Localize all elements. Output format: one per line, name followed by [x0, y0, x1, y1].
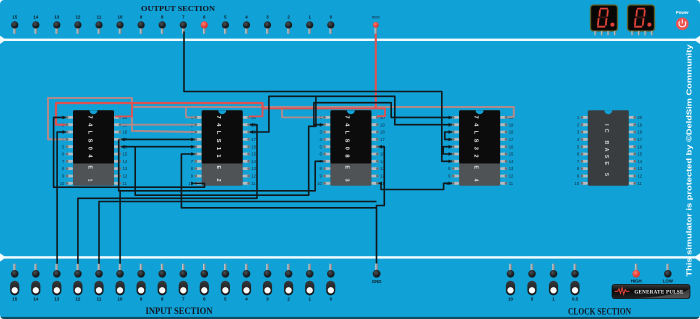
svg-text:14: 14	[251, 159, 256, 164]
input switch 4	[242, 264, 251, 302]
svg-text:13: 13	[54, 297, 59, 302]
svg-text:11: 11	[637, 181, 642, 186]
svg-text:14: 14	[637, 159, 642, 164]
svg-text:16: 16	[251, 144, 256, 149]
svg-text:GENERATE PULSE: GENERATE PULSE	[634, 291, 684, 296]
svg-text:VCC: VCC	[372, 14, 380, 19]
svg-text:12: 12	[637, 174, 642, 179]
svg-text:13: 13	[637, 166, 642, 171]
VCC pin	[372, 14, 380, 34]
wire rosy IC1.19 to IC2.2	[121, 124, 194, 126]
svg-text:HIGH: HIGH	[631, 279, 642, 284]
copyright side text	[686, 44, 694, 276]
svg-text:14: 14	[509, 159, 514, 164]
output pin 13	[53, 14, 60, 33]
svg-text:10: 10	[575, 181, 580, 186]
svg-text:15: 15	[12, 14, 17, 19]
svg-text:17: 17	[637, 137, 642, 142]
bottom edge shadow	[0, 317, 700, 319]
wire IC4 jumper 3-4	[445, 132, 452, 139]
svg-text:GND: GND	[372, 279, 382, 284]
input switch 10	[116, 264, 125, 302]
clock switch 5	[527, 264, 536, 302]
input switch 6	[200, 264, 209, 302]
wire red tap IC2.20	[249, 109, 263, 117]
wire T drop to lower bus	[135, 96, 316, 195]
svg-text:15: 15	[509, 152, 514, 157]
input switch 8	[158, 264, 167, 302]
svg-text:11: 11	[251, 181, 256, 186]
input switch 2	[284, 264, 293, 302]
seven segment display DS2	[628, 5, 655, 35]
output pin 7	[180, 14, 187, 33]
clock switch 0.5	[570, 264, 579, 302]
svg-text:17: 17	[509, 137, 514, 142]
svg-text:E 3: E 3	[344, 166, 350, 182]
svg-text:16: 16	[637, 144, 642, 149]
svg-text:12: 12	[509, 174, 514, 179]
svg-text:11: 11	[97, 14, 102, 19]
output pin 5	[222, 14, 229, 33]
IC E1 (74LS04)	[60, 110, 128, 186]
input switch 9	[137, 264, 146, 302]
svg-text:OUTPUT SECTION: OUTPUT SECTION	[141, 4, 216, 13]
svg-text:20: 20	[637, 115, 642, 120]
wire IC1.1 to IC2.10	[54, 117, 205, 187]
svg-text:10: 10	[508, 297, 513, 302]
svg-text:Power: Power	[676, 10, 689, 15]
LOW pin	[663, 264, 674, 284]
output pin 10	[116, 14, 123, 33]
IC E2 (74LS11)	[188, 110, 256, 186]
svg-text:13: 13	[54, 14, 59, 19]
wire IC2.18 to IC4.2	[250, 96, 452, 132]
svg-text:This simulator is protected by: This simulator is protected by ©DeldSim …	[686, 44, 694, 276]
wire input10 drop	[119, 191, 121, 266]
wire GND bundle	[377, 147, 385, 266]
svg-text:CLOCK SECTION: CLOCK SECTION	[568, 306, 631, 316]
svg-text:19: 19	[380, 122, 385, 127]
input switch 14	[31, 264, 40, 302]
wire IC1.16 to IC2.5	[121, 146, 194, 148]
svg-text:E 2: E 2	[215, 166, 221, 182]
input switch 11	[94, 264, 103, 302]
svg-text:IC BASE 5: IC BASE 5	[603, 124, 609, 176]
INPUT SECTION title	[146, 306, 213, 316]
wire IC1.3 to input13	[57, 132, 66, 266]
IC E4 (74LS32)	[446, 110, 514, 186]
svg-text:15: 15	[251, 152, 256, 157]
svg-text:12: 12	[251, 174, 256, 179]
wire rosy drop IC2.1	[186, 107, 195, 117]
svg-text:11: 11	[97, 297, 102, 302]
wire red VCC drop	[375, 34, 377, 109]
GND pin	[372, 264, 382, 285]
output pin 4	[243, 14, 250, 33]
output pin 3	[264, 14, 271, 33]
output pin 1	[306, 14, 313, 33]
wire arrowheads	[62, 116, 452, 186]
wire input11 bus	[99, 202, 377, 267]
clock switch 10	[506, 264, 515, 302]
wire IC1.17 to IC2.4	[121, 138, 194, 140]
svg-text:14: 14	[33, 297, 38, 302]
wire IC4 jumper 5-6	[443, 147, 452, 154]
svg-text:15: 15	[12, 297, 17, 302]
top separator rail	[0, 36, 700, 44]
bottom separator rail	[0, 253, 700, 261]
wire rosy bus to IC4.20	[132, 107, 514, 117]
IC ICBASE5 (empty base)	[575, 110, 643, 186]
CLOCK SECTION title	[568, 306, 631, 316]
svg-text:18: 18	[509, 130, 514, 135]
input switch 13	[52, 264, 61, 302]
svg-text:E 4: E 4	[472, 166, 478, 182]
svg-text:14: 14	[33, 14, 38, 19]
svg-text:14: 14	[123, 159, 128, 164]
svg-text:19: 19	[509, 122, 514, 127]
svg-text:17: 17	[251, 137, 256, 142]
svg-text:15: 15	[637, 152, 642, 157]
svg-text:18: 18	[380, 130, 385, 135]
output pin 14	[32, 14, 39, 33]
wire rosy IC1.4 loop to IC2.3	[48, 98, 195, 139]
svg-text:13: 13	[509, 166, 514, 171]
svg-text:19: 19	[637, 122, 642, 127]
wire IC2.6 to GND bus	[181, 154, 376, 208]
input switch 5	[221, 264, 230, 302]
wire IC1.17 drop to IC3.7	[119, 139, 324, 190]
svg-text:17: 17	[380, 137, 385, 142]
output pin 0	[327, 14, 334, 33]
wire red tap IC1.20	[115, 103, 132, 116]
svg-text:0.5: 0.5	[572, 297, 579, 302]
svg-text:15: 15	[123, 152, 128, 157]
wire rosy drop IC3.1	[282, 107, 323, 117]
svg-text:10: 10	[60, 181, 65, 186]
wire red bus west	[56, 103, 263, 125]
input switch 12	[73, 264, 82, 302]
svg-text:10: 10	[317, 181, 322, 186]
svg-text:E 1: E 1	[86, 166, 92, 182]
svg-text:LOW: LOW	[663, 279, 674, 284]
power button	[676, 10, 689, 30]
input switch 0	[326, 264, 335, 302]
svg-text:18: 18	[123, 130, 128, 135]
svg-text:11: 11	[509, 181, 514, 186]
IC E3 (74LS08)	[317, 110, 385, 186]
svg-text:18: 18	[637, 130, 642, 135]
svg-text:16: 16	[509, 144, 514, 149]
GENERATE PULSE button	[612, 284, 690, 298]
input switch 15	[10, 264, 19, 302]
output pin 12	[74, 14, 81, 33]
svg-text:10: 10	[118, 14, 123, 19]
OUTPUT SECTION title	[141, 4, 216, 13]
svg-text:12: 12	[75, 297, 80, 302]
svg-text:12: 12	[123, 174, 128, 179]
wire out7 to IC4.7	[184, 32, 452, 162]
svg-text:INPUT SECTION: INPUT SECTION	[146, 306, 213, 316]
input switch 3	[263, 264, 272, 302]
input switch 1	[305, 264, 314, 302]
wire IC3.2 to IC4.1	[314, 103, 452, 125]
input switch 7	[179, 264, 188, 302]
wire input12 to IC2.19	[78, 125, 257, 266]
output pin 2	[285, 14, 292, 33]
svg-text:12: 12	[75, 14, 80, 19]
svg-text:13: 13	[251, 166, 256, 171]
seven segment display DS1	[591, 5, 618, 35]
output pin 8	[159, 14, 166, 33]
wire IC3.11 to IC4.10	[379, 183, 452, 189]
svg-text:13: 13	[123, 166, 128, 171]
output pin 9	[138, 14, 145, 33]
output pin 15	[11, 14, 18, 33]
svg-text:10: 10	[118, 297, 123, 302]
output pin 11	[95, 14, 102, 33]
wire red bus mid	[263, 109, 386, 117]
svg-text:11: 11	[123, 181, 128, 186]
clock switch 1	[549, 264, 558, 302]
output pin 6	[201, 14, 208, 33]
HIGH pin	[631, 264, 642, 284]
